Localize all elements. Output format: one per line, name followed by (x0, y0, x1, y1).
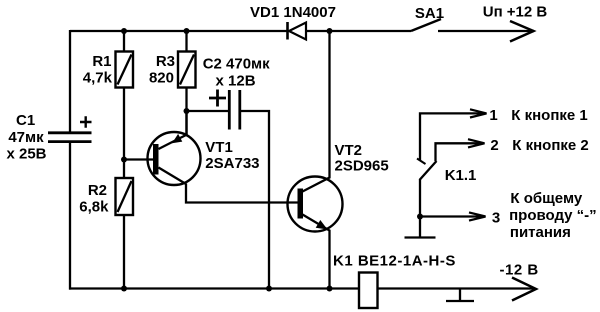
svg-text:R3: R3 (156, 53, 175, 70)
svg-text:6,8k: 6,8k (79, 199, 109, 216)
svg-text:K1.1: K1.1 (445, 167, 477, 184)
svg-text:820: 820 (149, 70, 174, 87)
svg-text:x 12В: x 12В (216, 73, 256, 90)
svg-text:C1: C1 (16, 112, 35, 129)
svg-text:-12 В: -12 В (500, 262, 539, 279)
svg-text:VD1 1N4007: VD1 1N4007 (250, 4, 336, 21)
svg-text:1: 1 (489, 107, 497, 124)
svg-text:К кнопке 2: К кнопке 2 (512, 137, 588, 154)
svg-text:питания: питания (510, 224, 571, 241)
svg-text:R1: R1 (92, 53, 111, 70)
svg-text:2SD965: 2SD965 (335, 158, 389, 175)
svg-text:C2 470мк: C2 470мк (203, 56, 270, 73)
svg-text:проводу “-”: проводу “-” (509, 207, 597, 224)
svg-text:3: 3 (492, 209, 500, 226)
svg-text:2: 2 (490, 137, 498, 154)
svg-text:x 25В: x 25В (6, 146, 46, 163)
svg-text:К общему: К общему (510, 190, 582, 207)
svg-text:К кнопке 1: К кнопке 1 (511, 107, 587, 124)
svg-text:2SA733: 2SA733 (205, 155, 259, 172)
svg-text:VT1: VT1 (205, 139, 233, 156)
svg-text:K1 BE12-1A-H-S: K1 BE12-1A-H-S (333, 253, 456, 270)
svg-text:47мк: 47мк (8, 129, 44, 146)
svg-text:R2: R2 (88, 182, 107, 199)
svg-text:SA1: SA1 (415, 5, 444, 22)
svg-text:4,7k: 4,7k (83, 70, 113, 87)
svg-text:Uп +12 В: Uп +12 В (483, 4, 548, 21)
svg-text:VT2: VT2 (335, 142, 363, 159)
